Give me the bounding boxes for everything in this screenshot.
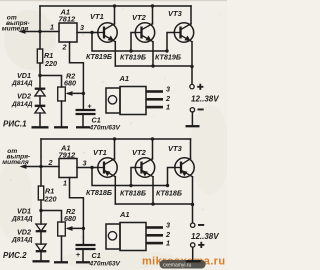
svg-text:VD2: VD2 [17, 228, 31, 237]
package drawing A1 TO-220 fig1 [106, 74, 170, 115]
label + output fig1 [197, 84, 203, 90]
wire base bus fig2 [92, 168, 168, 186]
node pin3 junction fig1 [90, 31, 93, 34]
svg-text:7812: 7812 [59, 15, 77, 24]
capacitor C1 fig2 [76, 228, 96, 262]
svg-text:РИС.2: РИС.2 [3, 251, 27, 260]
terminal - output fig1 [190, 108, 194, 112]
op-amp regulator U A1 box fig2 [59, 159, 77, 178]
svg-text:VT1: VT1 [90, 12, 104, 21]
svg-text:220: 220 [44, 195, 57, 204]
node VT3 base on bus fig2 [166, 184, 169, 187]
wire base bus fig1 [92, 33, 167, 52]
svg-text:680: 680 [64, 214, 76, 223]
wire R1 junction horizontal to R2 top fig1 [40, 76, 62, 88]
svg-text:2: 2 [62, 43, 67, 52]
op-amp regulator U A1 box fig1 [59, 23, 77, 42]
ground bar output fig2 [186, 260, 201, 262]
transistor VT3 fig2 [175, 139, 194, 223]
transistor VT2 fig2 [135, 139, 154, 204]
wire emitter bus fig1 [115, 66, 192, 84]
wire top rail fig2 [41, 138, 191, 140]
node input junction fig1 [38, 30, 41, 33]
wire VT2 base drop fig2 [131, 168, 136, 186]
ground bar VD2 fig1 [32, 126, 49, 128]
zener diode VD2 fig1 [35, 106, 46, 127]
svg-text:VD1: VD1 [17, 207, 31, 216]
svg-text:КТ819Б: КТ819Б [86, 52, 112, 61]
svg-text:VT1: VT1 [93, 148, 107, 157]
svg-text:A1: A1 [119, 210, 130, 219]
zener diode VD1 fig1 [35, 76, 46, 106]
ground bar C1 fig1 [76, 126, 90, 128]
transistor VT1 fig2 [98, 139, 117, 204]
svg-text:2: 2 [48, 158, 53, 167]
node pin3 junction fig2 [90, 166, 93, 169]
svg-text:1: 1 [63, 179, 67, 188]
svg-text:A1: A1 [119, 74, 130, 83]
svg-text:220: 220 [44, 59, 57, 68]
node emitter bus corner fig2 [191, 203, 194, 206]
transistor VT3 fig1 [174, 6, 193, 67]
svg-text:мителя: мителя [2, 26, 29, 33]
node VT2 base on bus fig2 [129, 184, 132, 187]
svg-text:12..38V: 12..38V [191, 95, 219, 104]
node VT2 collector on rail fig2 [151, 137, 154, 140]
svg-text:C1: C1 [92, 251, 101, 260]
svg-text:Д814Д: Д814Д [11, 101, 33, 108]
svg-text:КТ819Б: КТ819Б [155, 53, 181, 62]
wire emitter bus fig2 [115, 203, 192, 205]
wire R1 junction horizontal to R2 top fig2 [41, 211, 62, 223]
label + output fig2 [198, 242, 204, 248]
package drawing A1 TO-220 fig2 [106, 210, 170, 251]
svg-text:КТ818Б: КТ818Б [156, 189, 182, 198]
terminal + output fig1 [190, 84, 194, 88]
svg-text:РИС.1: РИС.1 [3, 120, 27, 129]
potentiometer R2 fig2 [58, 222, 84, 262]
resistor R1 fig2 [38, 186, 43, 211]
svg-text:VT2: VT2 [132, 13, 147, 22]
node VT2 emitter on bus fig2 [151, 202, 154, 205]
input arrow "from rectifier" fig1 [19, 29, 41, 34]
svg-text:VT3: VT3 [168, 9, 183, 18]
node VT1 collector on rail fig2 [113, 137, 116, 140]
transistor VT1 fig1 [98, 6, 117, 66]
svg-text:VT2: VT2 [132, 148, 147, 157]
svg-text:Д814Д: Д814Д [11, 80, 33, 87]
capacitor C1 fig1 [76, 93, 96, 127]
svg-text:680: 680 [64, 79, 76, 88]
node VT3 base on bus fig1 [165, 49, 168, 52]
node VT1 collector on rail [113, 4, 116, 7]
svg-text:мителя: мителя [2, 159, 29, 166]
svg-text:3: 3 [83, 159, 87, 168]
watermark badge cxemamyi.ru [160, 260, 206, 269]
node VT2 emitter on bus fig1 [151, 64, 154, 67]
svg-text:Д814Д: Д814Д [11, 237, 33, 244]
svg-text:470m/63V: 470m/63V [89, 125, 121, 132]
wire + terminal to ground fig2 [192, 247, 194, 261]
svg-text:КТ819Б: КТ819Б [120, 53, 146, 62]
svg-text:1: 1 [50, 23, 54, 32]
node R1 bottom junction fig1 [38, 74, 41, 77]
transistor VT2 fig1 [135, 6, 154, 67]
svg-text:КТ818Б: КТ818Б [86, 188, 112, 197]
potentiometer R2 fig1 [58, 87, 84, 127]
svg-text:+: + [88, 104, 92, 111]
svg-text:Д814Д: Д814Д [11, 216, 33, 223]
svg-text:VT3: VT3 [168, 144, 183, 153]
svg-text:3: 3 [166, 221, 170, 230]
input arrow "from rectifier" fig2 [20, 164, 42, 169]
wire VT2 base drop fig1 [131, 33, 136, 52]
wire left vertical input fig1 [39, 6, 41, 49]
ground bar R2 fig2 [54, 261, 68, 263]
wire left vertical input fig2 [40, 139, 42, 186]
label - output fig1 [198, 109, 204, 111]
label - output fig2 [198, 224, 204, 226]
zener diode VD1 fig2 [36, 211, 47, 245]
wire pin3 to VT1 base fig1 [77, 32, 98, 34]
terminal + output fig2 [191, 243, 195, 247]
svg-text:1: 1 [166, 239, 170, 248]
resistor R1 fig1 [37, 49, 42, 76]
node R2 wiper to C1 fig2 [82, 227, 85, 230]
node VT2 base on bus fig1 [129, 49, 132, 52]
node R2 wiper to C1 fig1 [82, 92, 85, 95]
wire pin1 to A1 fig1 [40, 31, 59, 33]
svg-text:VD2: VD2 [17, 92, 31, 101]
node input junction fig2 [39, 165, 42, 168]
label "от выпря- мителя" fig2 [2, 148, 30, 166]
zener diode VD2 fig2 [36, 244, 47, 261]
wire pin2 to A1 fig2 [41, 166, 59, 168]
wire VT3 base drop fig2 [168, 168, 176, 186]
ground bar C1 fig2 [76, 261, 90, 263]
svg-text:1: 1 [166, 103, 170, 112]
svg-text:470m/63V: 470m/63V [89, 261, 121, 268]
svg-text:3: 3 [80, 23, 84, 32]
wire pin3 to VT1 base fig2 [77, 167, 98, 169]
svg-text:3: 3 [166, 85, 170, 94]
svg-text:VD1: VD1 [17, 71, 31, 80]
svg-text:cxemamyi.ru: cxemamyi.ru [163, 262, 192, 268]
ground bar R2 fig1 [54, 126, 68, 128]
wire - terminal to ground fig1 [191, 112, 193, 126]
wire pin1 down to R2 fig2 [70, 178, 84, 229]
wire top rail fig1 [40, 5, 191, 7]
node emitter bus corner fig1 [190, 65, 193, 68]
ground bar VD2 fig2 [33, 260, 50, 262]
node VT2 collector on rail [151, 4, 154, 7]
svg-text:7912: 7912 [59, 151, 77, 160]
wire VT3 base drop fig1 [167, 33, 175, 52]
svg-text:КТ818Б: КТ818Б [120, 189, 146, 198]
terminal - output fig2 [191, 223, 195, 227]
svg-text:C1: C1 [92, 116, 101, 125]
svg-text:12..38V: 12..38V [191, 232, 219, 241]
ground bar output fig1 [186, 125, 200, 127]
label "от выпря- мителя" fig1 [2, 15, 30, 33]
svg-text:+: + [76, 252, 80, 259]
node R1 bottom junction fig2 [39, 209, 42, 212]
wire pin2 down to R2 fig1 [70, 42, 84, 93]
